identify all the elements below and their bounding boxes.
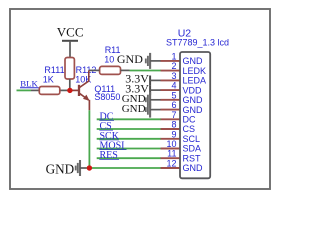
resistor R111 xyxy=(39,87,60,95)
svg-text:RST: RST xyxy=(183,153,202,163)
svg-text:SCL: SCL xyxy=(183,134,201,144)
svg-text:2: 2 xyxy=(171,61,176,71)
svg-text:GND: GND xyxy=(183,163,204,173)
power port GND pin6 xyxy=(122,102,161,118)
svg-text:GND: GND xyxy=(183,95,204,105)
sheet frame xyxy=(10,9,270,189)
svg-text:10: 10 xyxy=(166,139,176,149)
power port GND bottom xyxy=(46,160,87,176)
svg-text:GND: GND xyxy=(46,161,75,176)
pin 12 xyxy=(161,159,180,169)
pin 11 xyxy=(161,149,180,159)
resistor R11 xyxy=(100,66,121,74)
resistor R112 xyxy=(65,58,74,80)
power port GND pin1 xyxy=(117,52,161,69)
wire R11 right lead xyxy=(121,69,130,71)
wire BLK to R111 xyxy=(17,89,32,91)
net label MOSI / wire MOSI xyxy=(97,141,161,152)
svg-text:6: 6 xyxy=(171,100,176,110)
svg-text:GND: GND xyxy=(183,56,204,66)
node junction emitter/GND xyxy=(87,165,92,170)
svg-text:RES: RES xyxy=(100,150,118,161)
net label RES / wire RES xyxy=(97,150,161,161)
svg-text:11: 11 xyxy=(167,149,176,159)
svg-text:S8050: S8050 xyxy=(94,92,120,102)
svg-text:ST7789_1.3 lcd: ST7789_1.3 lcd xyxy=(166,38,229,48)
wire R111 right lead to node xyxy=(60,89,70,91)
pin 8 xyxy=(161,120,180,130)
svg-text:LEDA: LEDA xyxy=(183,76,207,86)
svg-text:4: 4 xyxy=(171,81,176,91)
wire GND to pin12 xyxy=(87,167,162,169)
wire R11 left lead xyxy=(89,69,100,71)
connector U2 body xyxy=(180,52,210,178)
pin 9 xyxy=(161,129,180,139)
power port 3.3V pin4 xyxy=(125,81,161,95)
net label DC / wire DC xyxy=(97,111,161,122)
svg-text:SDA: SDA xyxy=(183,144,202,154)
svg-text:1K: 1K xyxy=(43,74,54,84)
pin 7 xyxy=(161,110,180,120)
svg-text:VDD: VDD xyxy=(183,85,203,95)
pin 6 xyxy=(161,100,180,110)
pin 2 xyxy=(161,61,180,71)
svg-text:10: 10 xyxy=(104,55,114,65)
pin 1 xyxy=(161,51,180,61)
svg-text:12: 12 xyxy=(166,159,176,169)
svg-text:GND: GND xyxy=(183,105,204,115)
svg-text:GND: GND xyxy=(117,52,143,66)
svg-text:1: 1 xyxy=(171,51,176,61)
net label BLK xyxy=(20,78,39,88)
net label SCK / wire SCK xyxy=(97,131,161,142)
svg-text:9: 9 xyxy=(171,129,176,139)
wire R11 to pin2 xyxy=(130,70,162,72)
pin 10 xyxy=(161,139,180,149)
net label CS / wire CS xyxy=(97,121,161,132)
svg-text:3: 3 xyxy=(171,71,176,81)
svg-text:8: 8 xyxy=(171,120,176,130)
pin 5 xyxy=(161,90,180,100)
svg-text:CS: CS xyxy=(183,124,196,134)
svg-text:BLK: BLK xyxy=(20,78,38,88)
svg-text:7: 7 xyxy=(171,110,176,120)
power port 3.3V pin3 xyxy=(125,72,161,86)
power port VCC xyxy=(57,24,84,57)
power port GND pin5 xyxy=(122,92,161,108)
node junction R111/R112/base xyxy=(67,88,72,93)
pin 3 xyxy=(161,71,180,81)
wire emitter down xyxy=(88,110,90,168)
svg-text:VCC: VCC xyxy=(57,24,84,39)
wire R112 bottom lead xyxy=(69,79,71,90)
svg-text:GND: GND xyxy=(122,103,146,115)
svg-text:5: 5 xyxy=(171,90,176,100)
svg-text:DC: DC xyxy=(183,115,196,125)
svg-text:LEDK: LEDK xyxy=(183,66,207,76)
wire R111 left lead xyxy=(31,89,39,91)
transistor Q111 xyxy=(72,70,90,110)
pin 4 xyxy=(161,81,180,91)
